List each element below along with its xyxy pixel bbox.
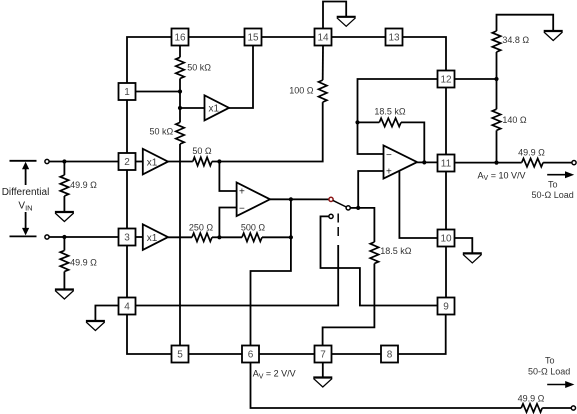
pin 7 (315, 346, 332, 363)
input port tick (top) (10, 160, 37, 162)
svg-text:+: + (386, 167, 392, 178)
svg-text:7: 7 (320, 350, 326, 361)
pin 6 (242, 346, 259, 363)
wire node down to U5 - input (358, 122, 384, 154)
svg-text:−: − (386, 150, 392, 161)
wire pin11 to output resistor (455, 162, 522, 164)
wire pin9 to pin10 (445, 247, 447, 298)
resistor 100 Ohm (319, 80, 327, 102)
pin 1 (119, 83, 136, 100)
svg-text:50 Ω: 50 Ω (192, 146, 212, 156)
switch throw contact A (346, 206, 350, 210)
svg-text:49.9 Ω: 49.9 Ω (518, 394, 545, 404)
node feedback junction (217, 235, 221, 239)
svg-text:15: 15 (247, 33, 259, 44)
svg-text:2: 2 (124, 157, 130, 168)
wire buffer U2 to R 50 (168, 161, 193, 163)
ground (input top) (55, 212, 74, 222)
wire pin5 to pin6 (189, 353, 243, 355)
wire pin6 to pin7 (259, 353, 315, 355)
pin 16 (172, 29, 189, 46)
pin 11 (438, 155, 455, 172)
wire pin3 to buffer U3 (136, 236, 143, 238)
pin 5 (172, 346, 189, 363)
svg-text:−: − (239, 203, 245, 214)
svg-text:50-Ω Load: 50-Ω Load (531, 190, 573, 200)
switch pole contact (red) (329, 197, 333, 201)
node buffer U1 input junction (178, 106, 182, 110)
resistor 500 Ohm (219, 236, 242, 238)
svg-text:500 Ω: 500 Ω (241, 222, 266, 232)
wire pin15 to pin14 (262, 36, 315, 38)
wire pin8 to pin9 (398, 315, 446, 355)
buffer U3 (x1) (143, 224, 168, 250)
pin 10 (438, 230, 455, 247)
svg-text:4: 4 (124, 302, 130, 313)
node U4 output (289, 197, 293, 201)
wire node to op-amp U4 - input (219, 208, 236, 238)
wire pin4 to pin5 (127, 315, 172, 355)
wire node to buffer U1 (180, 107, 205, 109)
pin 2 (119, 153, 136, 170)
wire pin2 to buffer U2 (136, 161, 143, 163)
wire pin7 to ground (322, 363, 324, 378)
wire 18.5k down to pin7 (323, 264, 375, 346)
pin 15 (245, 29, 262, 46)
wire pin3 to pin4 (126, 246, 128, 298)
switch linkage dashes (337, 214, 339, 223)
resistor 50 kOhm (upper) (176, 57, 184, 78)
node pin1/50k junction (178, 89, 182, 93)
pin 13 (386, 29, 403, 46)
resistor 18.5 kOhm (gain) (370, 242, 378, 264)
ground (input bottom) (55, 290, 74, 300)
wire pin2 to pin3 (126, 170, 128, 229)
resistor 34.8 Ohm (496, 52, 498, 79)
svg-text:9: 9 (443, 302, 449, 313)
svg-text:250 Ω: 250 Ω (189, 222, 214, 232)
wire U5 body to pin10 (399, 171, 437, 238)
wire pin4 rail to switch (136, 245, 339, 306)
wire pin4 to ground (95, 306, 118, 322)
svg-text:14: 14 (317, 33, 329, 44)
wire pin10 to ground (455, 238, 473, 253)
wire pin10 to pin11 (445, 172, 447, 230)
svg-text:1: 1 (124, 87, 130, 98)
svg-text:Differential: Differential (2, 187, 50, 198)
svg-text:8: 8 (387, 350, 393, 361)
svg-text:6: 6 (248, 350, 254, 361)
wire pin13 to pin12 (403, 37, 447, 71)
pin 14 (315, 29, 332, 46)
svg-text:49.9 Ω: 49.9 Ω (70, 258, 97, 268)
ground (top right) (544, 31, 563, 41)
wire U4 output node down to 500 node (290, 199, 292, 237)
svg-text:18.5 kΩ: 18.5 kΩ (374, 107, 406, 117)
svg-text:x1: x1 (209, 104, 220, 115)
buffer U1 (x1) (205, 95, 230, 120)
switch throw contact B (329, 214, 333, 218)
node input shunt (top) (62, 159, 66, 163)
arrow to load (right) (547, 174, 566, 176)
resistor 140 Ohm (496, 79, 498, 109)
wire 100 ohm to pin14 (322, 46, 324, 81)
wire pin6 to bottom output resistor (251, 363, 522, 409)
output terminal (AV=10) (572, 161, 576, 165)
wire pin16 bottom to R 50k (179, 46, 181, 58)
wire buffer U1 output to pin15 (229, 46, 253, 109)
wire R50k to node at pin1 level (179, 79, 181, 92)
wire pin11 to pin12 (445, 88, 447, 155)
wire throw B to pin9 rail (321, 216, 438, 305)
wire pin16 to pin15 (189, 36, 245, 38)
svg-text:49.9 Ω: 49.9 Ω (518, 147, 545, 157)
svg-text:10: 10 (440, 234, 452, 245)
pin 3 (119, 229, 136, 246)
input terminal (bottom) (45, 235, 49, 239)
wire pin14 to top ground (323, 2, 346, 29)
svg-text:3: 3 (124, 233, 130, 244)
node U5 output (422, 160, 426, 164)
svg-text:12: 12 (440, 75, 452, 86)
wire throw A to node (350, 207, 358, 209)
pin 8 (381, 346, 398, 363)
wire node to buffer input node (179, 92, 181, 109)
resistor 49.9 Ohm (bottom) (521, 404, 542, 412)
input terminal (top) (45, 159, 49, 163)
wire R250 to node (212, 236, 219, 238)
resistor 49.9 Ohm (input top) (63, 162, 65, 176)
ground (pin 10) (463, 253, 482, 263)
svg-text:5: 5 (177, 350, 183, 361)
switch lever (333, 200, 346, 207)
node 50 ohm output (217, 159, 221, 163)
node output divider (494, 161, 498, 165)
wire pin16 to pin1 (127, 37, 172, 83)
wire pin1 to node (136, 91, 181, 93)
svg-text:49.9 Ω: 49.9 Ω (70, 180, 97, 190)
output terminal (AV=2) (571, 406, 575, 410)
svg-text:x1: x1 (147, 157, 158, 168)
resistor 18.5 kOhm (feedback) (358, 121, 380, 123)
wire node to op-amp U4 + input (219, 162, 236, 192)
svg-text:34.8 Ω: 34.8 Ω (502, 35, 529, 45)
svg-text:11: 11 (441, 159, 452, 170)
svg-text:50-Ω Load: 50-Ω Load (528, 366, 570, 376)
differential arrow (25, 169, 27, 186)
node divider top (494, 77, 498, 81)
wire buffer U3 to R 250 (168, 236, 192, 238)
wire to bottom output terminal (542, 407, 571, 409)
resistor 49.9 Ohm (input bottom) (63, 237, 65, 251)
resistor 50 kOhm (lower) (179, 108, 181, 122)
svg-text:140 Ω: 140 Ω (502, 115, 527, 125)
wire pin14 to pin13 (332, 36, 386, 38)
svg-text:To: To (545, 355, 555, 365)
wire 500 node to pin6 (251, 237, 291, 345)
wire node to 18.5k gain resistor (358, 208, 374, 242)
op-amp U4 (237, 183, 270, 217)
pin 12 (438, 71, 455, 88)
arrow to load (bottom) (547, 384, 567, 386)
resistor 50 Ohm (193, 157, 212, 165)
wire feedback to U5 output (401, 122, 424, 162)
svg-text:100 Ω: 100 Ω (289, 86, 314, 96)
svg-text:50 kΩ: 50 kΩ (187, 63, 211, 73)
wire node up to op-amp U5 + input (358, 171, 383, 208)
resistor 250 Ohm (192, 233, 212, 241)
wire U4 output to switch (270, 198, 329, 200)
input port tick (bottom) (10, 235, 37, 237)
op-amp U5 (384, 146, 418, 179)
resistor 49.9 Ohm (output) (522, 158, 543, 166)
wire 34.8 to ground (497, 15, 554, 31)
svg-text:13: 13 (388, 33, 400, 44)
wire pin12 to divider node (455, 78, 497, 80)
ground (top, pin 14) (337, 17, 356, 27)
wire pin1 to pin2 (126, 100, 128, 153)
ground (pin 4) (86, 321, 105, 331)
svg-text:18.5 kΩ: 18.5 kΩ (380, 246, 412, 256)
buffer U2 (x1) (143, 149, 168, 175)
ground (pin 7) (313, 378, 332, 388)
wire U5 output to pin11 (417, 161, 437, 163)
svg-text:To: To (548, 179, 558, 189)
wire input to pin2 (49, 161, 118, 163)
wire 50k lower down to pin 5 (179, 144, 181, 346)
svg-text:+: + (239, 187, 245, 198)
svg-text:50 kΩ: 50 kΩ (150, 127, 174, 137)
svg-text:x1: x1 (147, 233, 158, 244)
svg-text:16: 16 (174, 33, 186, 44)
wire pin7 to pin8 (332, 353, 382, 355)
wire to output terminal (543, 162, 572, 164)
pin 9 (438, 298, 455, 315)
wire input to pin3 (49, 236, 118, 238)
pin 4 (119, 298, 136, 315)
wire node to 100 ohm riser (219, 102, 322, 161)
node 500 ohm right junction (289, 235, 293, 239)
wire R50 to node (212, 161, 220, 163)
node feedback left (355, 120, 359, 124)
node input shunt (bottom) (62, 235, 66, 239)
wire pin12 to feedback node (358, 79, 438, 122)
node switch common (356, 206, 360, 210)
